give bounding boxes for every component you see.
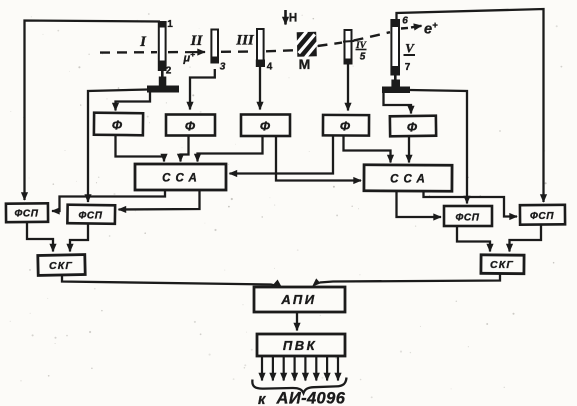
- svg-text:2: 2: [166, 66, 172, 77]
- svg-text:СКГ: СКГ: [490, 259, 514, 271]
- svg-text:ФСП: ФСП: [14, 209, 38, 220]
- svg-text:ФСП: ФСП: [455, 213, 479, 224]
- svg-text:ССА: ССА: [162, 173, 202, 185]
- svg-text:М: М: [299, 56, 311, 72]
- svg-text:АПИ: АПИ: [280, 292, 316, 307]
- svg-text:ФСП: ФСП: [530, 211, 554, 222]
- svg-text:6: 6: [402, 16, 408, 27]
- svg-text:Ф: Ф: [185, 119, 196, 134]
- svg-text:4: 4: [267, 62, 273, 73]
- svg-text:АИ-4096: АИ-4096: [276, 390, 346, 406]
- svg-text:Ф: Ф: [260, 119, 271, 134]
- svg-text:ПВК: ПВК: [283, 338, 317, 353]
- svg-text:III: III: [235, 33, 255, 49]
- svg-text:к: к: [258, 392, 266, 406]
- svg-text:1: 1: [167, 19, 173, 30]
- svg-text:СКГ: СКГ: [49, 260, 73, 272]
- svg-text:3: 3: [220, 62, 226, 73]
- svg-text:7: 7: [405, 62, 411, 73]
- svg-text:Ф: Ф: [112, 118, 123, 133]
- svg-text:V: V: [405, 41, 415, 56]
- svg-text:5: 5: [360, 52, 366, 63]
- svg-text:Ф: Ф: [340, 119, 351, 134]
- svg-text:I: I: [139, 34, 147, 50]
- svg-text:Н: Н: [289, 13, 297, 25]
- svg-text:Ф: Ф: [407, 120, 418, 135]
- svg-text:II: II: [190, 33, 204, 49]
- svg-text:ФСП: ФСП: [78, 211, 102, 222]
- svg-text:ССА: ССА: [390, 174, 430, 186]
